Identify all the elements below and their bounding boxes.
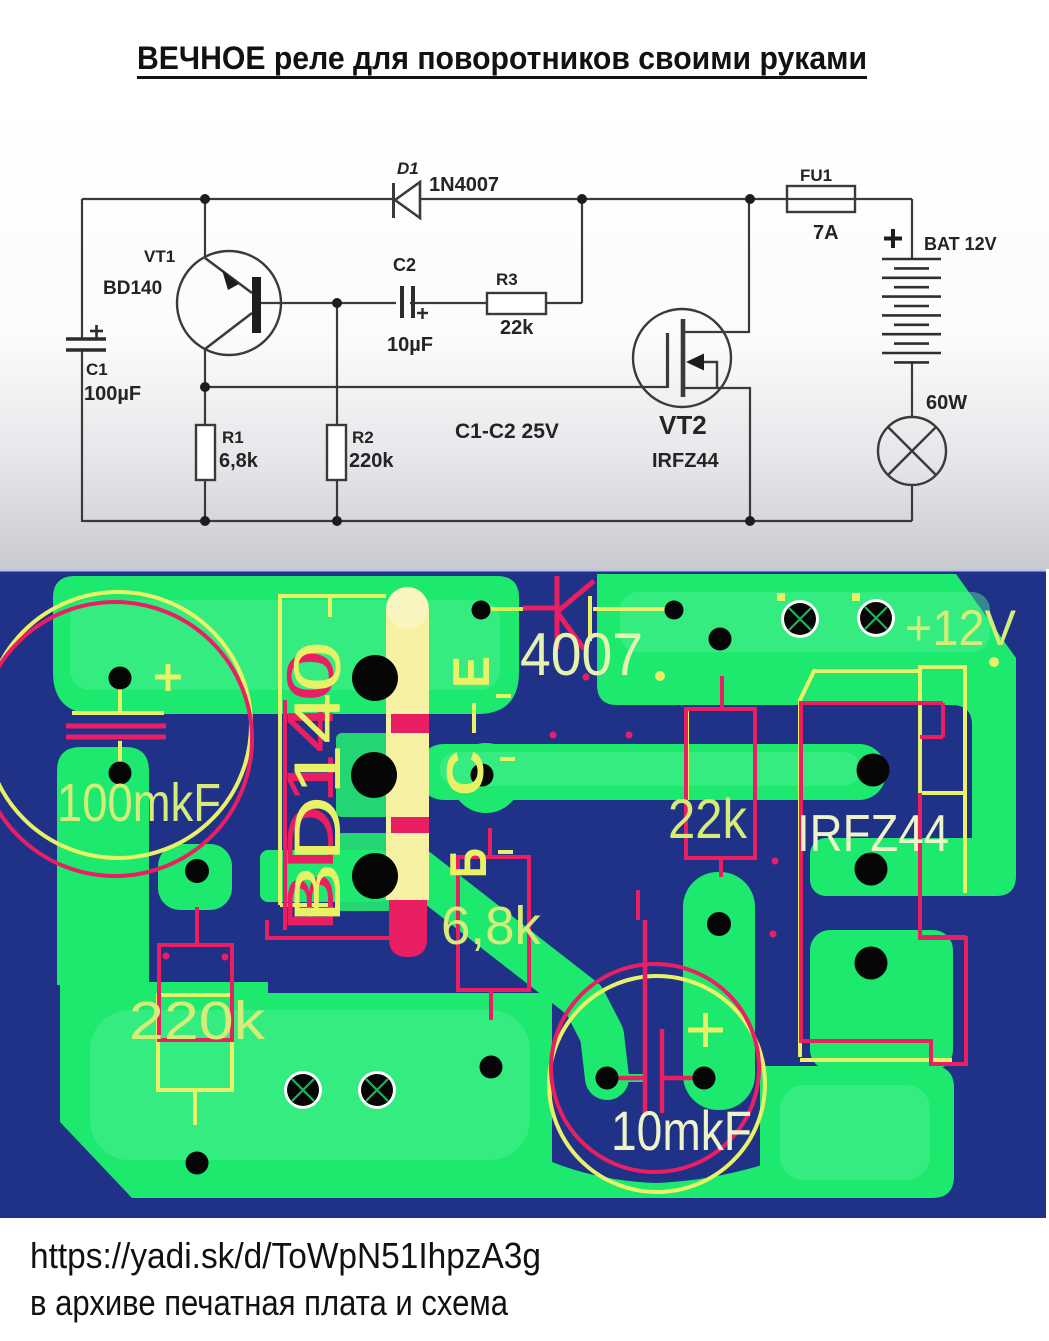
resistor R1 [196,425,215,480]
red diode symbol [523,576,594,649]
node E dot [200,382,210,392]
schematic background [0,110,1049,569]
trace B diagonal [412,866,607,1078]
trace drain band [810,838,1008,896]
wire VT1 emitter drop [204,199,206,258]
transistor VT1 [177,251,281,355]
svg-text:FU1: FU1 [800,166,832,185]
trace gate horizontal [417,744,886,800]
silk BD140 outline [280,594,386,905]
pad diode anode [472,601,491,620]
wire top rail right segment [420,198,787,200]
pad MOSFET gate [857,754,890,787]
svg-text:R3: R3 [496,270,518,289]
red 6,8k outline [458,828,529,1020]
red BD140 bottom [267,920,389,938]
trace below 10mkF circle [552,1162,772,1198]
svg-text:BD140: BD140 [280,641,354,924]
BD140 tab bar yellow [386,590,429,900]
node H dot [745,516,755,526]
svg-text:C1-C2 25V: C1-C2 25V [455,420,559,443]
BD140 tab bar pink band 1 [391,714,429,733]
pcb right white strip [1046,569,1049,1219]
trace gate bulge [451,743,521,813]
svg-text:Б: Б [440,848,498,878]
red 10mkF plates [618,920,695,1113]
wire C2 to R3 [410,302,486,304]
node A dot [200,194,210,204]
node B dot [577,194,587,204]
svg-text:VT2: VT2 [659,410,707,440]
silk 10mkF circle [549,976,765,1192]
trace R1 pad blob [158,844,232,910]
red 22k bottom stub [638,858,721,920]
wire left rail upper [81,199,83,338]
pads: BD140 E pad [352,655,398,701]
wire battery drop [911,199,913,260]
svg-text:IRFZ44: IRFZ44 [797,805,949,863]
silk IRFZ44 outline [800,667,965,1066]
node F dot [200,516,210,526]
pad 22k top [709,628,732,651]
pad BD140 C [351,752,397,798]
silkscreen texts [57,600,1017,1162]
capacitor C2 [402,286,428,319]
silk dots yellow [655,593,999,681]
wire VT2 source [684,388,750,521]
red 10mkF circle [551,964,759,1172]
svg-text:C: C [437,750,495,796]
svg-text:+12V: +12V [905,600,1017,656]
capacitor C1 [66,325,106,350]
pad MOSFET source [855,947,888,980]
pad BD140 B [352,853,398,899]
wire R1 to bottom rail [204,480,206,521]
svg-text:R2: R2 [352,428,374,447]
svg-text:6,8k: 6,8k [219,450,259,472]
trace C1 left column [57,747,149,985]
red BD140 edge [283,700,287,930]
silkscreen red lines [0,576,966,1172]
trace below BD140 [260,850,389,902]
trace top-left region [53,576,519,714]
pad C1 minus [109,762,132,785]
svg-text:1N4007: 1N4007 [429,174,499,196]
trace C pad square [336,733,417,817]
battery BAT [882,259,941,362]
via X pad 1 [781,600,819,638]
red 220k outline [159,907,232,1040]
svg-text:IRFZ44: IRFZ44 [652,450,720,472]
pad R1 top [185,859,209,883]
wire VT2 drain [684,199,749,332]
pad MOSFET drain [855,853,888,886]
svg-text:10µF: 10µF [387,334,433,356]
svg-text:R1: R1 [222,428,244,447]
wire bottom rail [82,520,912,522]
pad diode cathode [665,601,684,620]
wire base node [261,302,396,304]
silk C1 plus [155,664,181,691]
svg-text:в архиве печатная плата и схем: в архиве печатная плата и схема [30,1282,509,1323]
title underline [137,76,867,79]
silk diode anode wire [489,607,523,611]
pad 6,8k bottom [480,1056,503,1079]
wire VT1 collector drop [204,349,206,425]
svg-text:BD140: BD140 [103,278,162,299]
silk 22k left edge [685,710,689,800]
trace bottom ground plane [60,982,552,1198]
svg-text:D1: D1 [397,159,419,178]
svg-text:100mkF: 100mkF [57,773,221,833]
pcb top border line [0,569,1046,572]
red C1 plates [66,726,166,737]
svg-text:4007: 4007 [520,621,643,688]
resistor R3 [487,293,546,314]
trace source blob [810,930,953,1070]
silk 220k rect [158,995,232,1125]
silk diode cathode [590,596,667,641]
wire top rail left segment [82,198,393,200]
battery plus sign [884,229,902,248]
trace B pad square [336,833,417,911]
trace shading highlights [70,592,990,1180]
pad gate trace [471,764,494,787]
pad R1 bottom [186,1152,209,1175]
wire fuse to corner [855,198,912,200]
wire R3 to riser [546,302,582,304]
svg-text:220k: 220k [349,450,394,472]
svg-text:7A: 7A [813,222,839,244]
trace bottom-right plane [760,1066,954,1198]
svg-text:10mkF: 10mkF [611,1099,752,1162]
via X pad 2 [857,599,895,637]
wire left rail lower [81,350,83,522]
BD140 tab bar pink bottom [389,900,427,957]
red C1 circle [0,602,252,876]
BD140 bar top cap [387,587,429,629]
BD140 tab bar pink band 2 [391,817,429,833]
svg-text:C2: C2 [393,255,416,275]
trace top-right +12V region [597,574,1016,896]
svg-text:60W: 60W [926,392,967,414]
resistor R2 [327,425,346,480]
red MOSFET outline [801,703,966,1064]
wire riser to top rail [581,199,583,303]
node D dot [332,298,342,308]
diode D1 [394,182,421,218]
node G dot [332,516,342,526]
svg-text:22k: 22k [500,317,534,339]
pad 10mkF minus [596,1067,619,1090]
trace 10mkF vertical [683,872,755,1110]
silk pin dashes [496,696,515,852]
wire gate line [205,386,667,388]
wire battery to lamp [911,362,913,417]
silk C1 cap link [72,688,164,765]
via X pad 4 [358,1071,396,1109]
node C dot [745,194,755,204]
svg-text:E: E [443,656,501,688]
silk 10mkF plus [688,1013,723,1047]
svg-text:VT1: VT1 [144,247,175,266]
pcb board background [0,572,1046,1219]
silk dots red [163,674,779,961]
silk C1 circle [0,592,251,858]
svg-text:22k: 22k [668,787,748,850]
svg-text:100µF: 100µF [84,383,141,405]
svg-text:C1: C1 [86,360,108,379]
svg-text:6,8k: 6,8k [441,896,542,956]
lamp [878,417,946,485]
svg-text:BAT 12V: BAT 12V [924,234,997,254]
transistor VT2 [633,309,731,407]
trace cap right stub [704,1074,740,1082]
silk C square stub [472,703,476,733]
svg-text:ВЕЧНОЕ реле для поворотников с: ВЕЧНОЕ реле для поворотников своими рука… [137,40,867,76]
svg-text:220k: 220k [129,991,266,1051]
red 22k outline [686,676,755,858]
silkscreen yellow lines [0,592,965,1192]
wire R2 to bottom rail [336,480,338,521]
via X pad 3 [284,1071,322,1109]
wire lamp to bottom rail [911,485,913,521]
wire R2 drop [336,303,338,425]
pad 22k bottom [707,912,731,936]
svg-text:https://yadi.sk/d/ToWpN51IhpzA: https://yadi.sk/d/ToWpN51IhpzA3g [30,1235,541,1276]
pad 10mkF plus [693,1067,716,1090]
trace cap left stub [615,1074,645,1082]
fuse FU1 [787,186,855,212]
pad C1 plus [109,667,132,690]
